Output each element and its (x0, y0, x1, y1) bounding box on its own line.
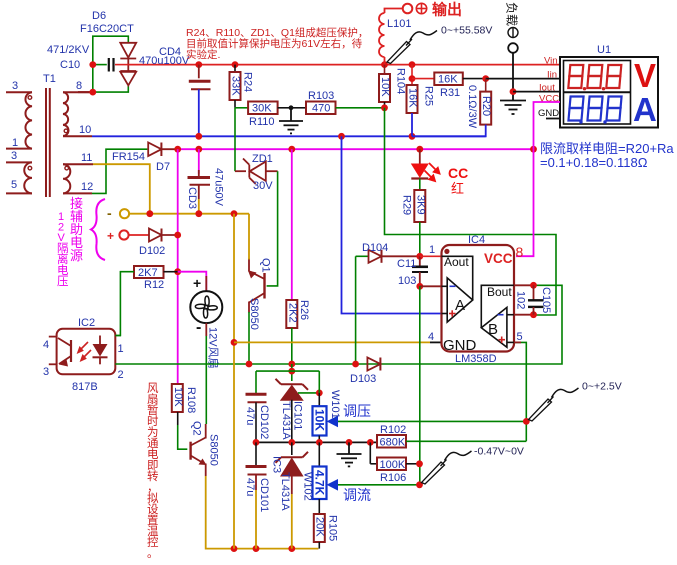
ground symbol at R110/R103 (279, 105, 303, 133)
svg-text:负载: 负载 (505, 2, 519, 26)
capacitor C11 103 (397, 253, 428, 290)
diode D103 (350, 358, 380, 386)
wire: R24 to R110 green (235, 107, 248, 109)
svg-text:16K: 16K (407, 88, 419, 108)
svg-text:TL431A: TL431A (280, 401, 292, 440)
svg-text:8: 8 (516, 244, 524, 260)
resistor R26 2K2 (286, 149, 310, 364)
wire: yellow to IC4 pin4 (234, 341, 430, 343)
svg-text:12V风扇: 12V风扇 (207, 327, 221, 369)
potentiometer W102 4.7K current set (302, 442, 339, 514)
svg-text:Vin: Vin (544, 56, 558, 67)
wire: pin11 yellow to minus terminal rail (93, 164, 150, 214)
svg-text:103: 103 (398, 275, 416, 287)
wire: magenta rail (178, 148, 534, 150)
svg-text:R20: R20 (480, 96, 492, 116)
svg-text:12: 12 (81, 181, 93, 193)
svg-text:V: V (634, 57, 656, 94)
svg-text:8: 8 (76, 80, 82, 92)
svg-text:10K: 10K (313, 409, 327, 431)
optocoupler IC2 817B (43, 317, 124, 393)
probe: current-set measurement (422, 451, 472, 484)
svg-text:ZD1: ZD1 (252, 153, 273, 165)
svg-text:GND: GND (443, 337, 477, 354)
svg-text:R104: R104 (395, 68, 407, 94)
transistor Q2 S8050 (191, 421, 220, 476)
svg-text:100K: 100K (380, 459, 406, 471)
svg-text:10: 10 (79, 124, 91, 136)
svg-text:D103: D103 (350, 373, 376, 385)
resistor R105 20K (314, 514, 339, 549)
svg-text:R105: R105 (327, 515, 339, 541)
svg-text:102: 102 (515, 291, 527, 309)
node: magenta rail junctions (174, 146, 537, 153)
svg-text:CD101: CD101 (258, 478, 270, 512)
op-amp U IC4 LM358D (428, 234, 524, 365)
svg-text:Iin: Iin (547, 70, 557, 81)
wire: magenta VCC from meter down to IC4 pin8 (516, 102, 560, 256)
svg-text:0.1Ω/3W: 0.1Ω/3W (466, 85, 478, 129)
svg-text:压: 压 (57, 275, 69, 288)
svg-text:T1: T1 (43, 73, 56, 85)
svg-text:离: 离 (57, 252, 69, 266)
diode D6 F16C20CT dual rectifier with green loop wiring (93, 36, 136, 92)
resistor R104 10K (379, 65, 407, 112)
svg-text:Iout: Iout (539, 83, 555, 94)
svg-text:-: - (107, 205, 112, 221)
svg-text:限流取样电阻=R20+Ra: 限流取样电阻=R20+Ra (540, 141, 674, 156)
ground symbol mid rail (337, 442, 362, 466)
svg-text:FR154: FR154 (112, 151, 145, 163)
svg-text:470u100V: 470u100V (139, 55, 190, 67)
capacitor CD4 470u100V (189, 65, 211, 137)
svg-text:S8050: S8050 (248, 298, 260, 330)
svg-text:IC3: IC3 (271, 456, 283, 473)
svg-text:IC2: IC2 (78, 317, 95, 329)
wire: middle black rail (256, 441, 377, 443)
resistor R29 3K9 (401, 190, 427, 256)
resistor R12 2K7 (115, 266, 177, 336)
node: junction dots top-left (89, 61, 415, 95)
svg-text:680K: 680K (380, 437, 406, 449)
wire: blue rail from T1 pin10 (92, 135, 486, 137)
node: bottom rail junctions (231, 545, 296, 552)
resistor R102 680K (377, 424, 526, 449)
fan motor 12V (178, 272, 223, 424)
svg-text:输出: 输出 (432, 1, 462, 19)
svg-text:调压: 调压 (343, 403, 371, 419)
regulator IC3 TL431A current ref (271, 442, 309, 548)
svg-text:Q1: Q1 (260, 258, 272, 273)
svg-text:CD3: CD3 (186, 187, 198, 209)
svg-text:47u: 47u (244, 407, 256, 425)
wire: A- red to IC4 (420, 285, 442, 287)
svg-text:Aout: Aout (444, 255, 469, 269)
annotation: left magenta note 接辅助电源12V隔离电压 (57, 196, 83, 277)
svg-text:Q2: Q2 (191, 421, 203, 436)
wire: ZD1 to Q1 base green (267, 171, 278, 286)
svg-text:471/2KV: 471/2KV (47, 44, 90, 56)
svg-text:3K9: 3K9 (414, 195, 426, 215)
svg-text:1: 1 (12, 137, 18, 149)
capacitor CD3 47u50V (186, 149, 225, 214)
svg-text:47u50V: 47u50V (213, 168, 225, 207)
inductor L101 (379, 9, 402, 65)
svg-text:4: 4 (428, 331, 434, 343)
svg-text:0~+55.58V: 0~+55.58V (441, 25, 492, 37)
zener ZD1 30V (235, 108, 278, 192)
diode D7 FR154 (92, 143, 178, 194)
node: yellow rail junctions (146, 210, 237, 217)
svg-text:11: 11 (81, 152, 92, 164)
svg-text:R108: R108 (185, 387, 197, 413)
wire: pin1 red to IC4 (420, 255, 442, 257)
svg-text:10K: 10K (379, 77, 391, 97)
svg-text:R26: R26 (298, 300, 310, 320)
svg-text:调流: 调流 (343, 487, 371, 503)
svg-text:5: 5 (517, 331, 523, 343)
svg-text:温: 温 (147, 524, 159, 538)
meter U1 digital volt/ammeter (538, 44, 658, 128)
svg-text:L101: L101 (387, 18, 411, 30)
svg-text:R25: R25 (423, 86, 435, 106)
svg-text:2: 2 (118, 369, 124, 381)
transformer T1 (6, 88, 93, 197)
svg-text:30K: 30K (252, 103, 272, 115)
svg-text:实验定.: 实验定. (186, 48, 220, 61)
svg-text:。: 。 (147, 548, 159, 560)
svg-text:D7: D7 (156, 161, 170, 173)
svg-text:IC101: IC101 (292, 401, 304, 430)
svg-text:CD102: CD102 (258, 405, 270, 439)
svg-text:3: 3 (12, 80, 18, 92)
terminal: load negative with ground (500, 2, 560, 114)
wire: Iin line to meter (486, 78, 560, 80)
svg-text:S8050: S8050 (208, 434, 220, 466)
svg-text:R24: R24 (242, 72, 254, 92)
svg-text:控: 控 (147, 535, 159, 549)
wire: pin8 magenta handled; Bout red to C105 (514, 284, 534, 286)
svg-text:2K7: 2K7 (138, 267, 158, 279)
svg-text:C105: C105 (540, 287, 552, 313)
svg-text:+: + (107, 229, 114, 243)
svg-text:LM358D: LM358D (455, 353, 497, 365)
svg-text:0~+2.5V: 0~+2.5V (582, 381, 622, 393)
svg-text:3: 3 (11, 150, 17, 162)
probe: voltage-set measurement (529, 388, 579, 421)
svg-text:C11: C11 (397, 258, 416, 270)
svg-text:F16C20CT: F16C20CT (80, 23, 134, 35)
svg-text:16K: 16K (438, 74, 458, 86)
wire: IC2 pin1 green up to R12 (115, 335, 121, 337)
capacitor CD101 47u (244, 442, 270, 548)
svg-text:1: 1 (429, 244, 435, 256)
svg-text:红: 红 (451, 181, 464, 196)
svg-text:Bout: Bout (487, 285, 512, 299)
svg-text:R102: R102 (380, 424, 406, 436)
terminal: minus aux input (107, 205, 249, 221)
svg-text:R12: R12 (144, 279, 164, 291)
wire: D104 green vertical to green rail (355, 256, 357, 364)
resistor R110 30K (248, 102, 291, 129)
capacitor CD102 47u (244, 371, 270, 442)
wire: wiper W102 green (338, 484, 420, 486)
svg-text:20K: 20K (314, 517, 326, 537)
svg-text:A: A (455, 297, 465, 314)
svg-text:30V: 30V (253, 180, 273, 192)
LED CC red indicator (411, 149, 468, 196)
op-amp A triangle (447, 278, 473, 322)
annotation: red vertical fan note (147, 382, 159, 560)
wire: B- red from C105 bottom (514, 314, 534, 316)
svg-text:4.7K: 4.7K (313, 470, 327, 496)
resistor R106 100K (370, 442, 423, 484)
diode D104 (356, 242, 420, 263)
svg-text:+: + (193, 275, 201, 291)
svg-text:D102: D102 (139, 245, 165, 257)
svg-text:R29: R29 (401, 195, 413, 215)
svg-text:U1: U1 (597, 44, 611, 56)
svg-text:2K2: 2K2 (286, 303, 298, 323)
wire: green rail from IC2 pin2 across schematic (115, 285, 562, 364)
svg-text:CC: CC (448, 165, 468, 181)
svg-text:470: 470 (312, 103, 330, 115)
svg-text:R31: R31 (440, 87, 460, 99)
resistor R24 33K (230, 65, 254, 108)
capacitor C105 102 (515, 282, 553, 318)
svg-text:47u: 47u (244, 478, 256, 496)
transistor Q1 S8050 (248, 214, 272, 364)
svg-text:拟: 拟 (147, 491, 159, 505)
wire: magenta vertical from D7 node down to R108 (177, 149, 179, 384)
svg-text:GND: GND (538, 108, 559, 119)
svg-text:-: - (196, 319, 201, 336)
resistor R103 470 (291, 90, 336, 115)
svg-text:-0.47V~0V: -0.47V~0V (474, 446, 524, 458)
svg-text:D6: D6 (92, 10, 106, 22)
svg-text:W101: W101 (329, 390, 341, 419)
resistor R20 0.1ohm 3W shunt (412, 79, 492, 137)
svg-text:源: 源 (70, 248, 83, 263)
wire: R103 to R104 green (336, 107, 385, 109)
resistor R31 16K (412, 73, 489, 100)
svg-text:扇: 扇 (147, 392, 159, 406)
diode D102 (139, 229, 178, 258)
svg-text:4: 4 (43, 339, 49, 351)
svg-text:B: B (488, 321, 498, 338)
resistor R25 16K (407, 65, 435, 137)
svg-text:3: 3 (43, 366, 49, 378)
svg-text:33K: 33K (230, 76, 242, 96)
svg-text:D104: D104 (362, 242, 388, 254)
svg-text:R106: R106 (380, 472, 406, 484)
svg-text:R103: R103 (308, 90, 334, 102)
probe: output voltage measurement (387, 31, 437, 64)
terminal: plus aux input (107, 229, 149, 243)
svg-text:C10: C10 (60, 59, 80, 71)
wire: pin8 lead to D6 node (78, 91, 93, 93)
svg-text:IC4: IC4 (468, 234, 485, 246)
wire: pin5 to voltage-set net (514, 342, 526, 441)
svg-text:VCC: VCC (484, 251, 513, 266)
wire: long yellow vertical to IC4 pin4 and bottom rail (233, 214, 235, 549)
svg-text:R110: R110 (249, 116, 274, 128)
wire: wiper W101 green to pin5 net (338, 420, 526, 422)
node: blue rail junctions (195, 133, 415, 140)
svg-text:A: A (633, 91, 657, 128)
wire: main red +V rail (128, 64, 560, 66)
potentiometer W101 10K voltage set (313, 390, 342, 442)
wire: Q2 emitter yellow to bottom rail (206, 476, 319, 549)
node: green rail junctions (246, 361, 296, 368)
wire: VCC feedback green from R104 to C105 bottom (385, 108, 557, 315)
wire: green from C11 down to R106/W102 (419, 286, 421, 485)
svg-text:10K: 10K (172, 387, 184, 407)
svg-text:5: 5 (11, 179, 17, 191)
svg-text:1: 1 (118, 343, 124, 355)
svg-text:转: 转 (147, 469, 159, 483)
regulator IC101 TL431A with divider (256, 364, 323, 442)
svg-text:W102: W102 (302, 472, 314, 501)
svg-text:817B: 817B (72, 381, 98, 393)
capacitor C10 471/2KV (93, 58, 129, 72)
terminal: output plus (403, 1, 462, 19)
wire: A+ blue branch to op-amp (342, 136, 442, 313)
svg-text:TL431A: TL431A (279, 472, 291, 511)
svg-text:=0.1+0.18=0.118Ω: =0.1+0.18=0.118Ω (540, 155, 648, 170)
resistor R108 10K (172, 384, 197, 449)
